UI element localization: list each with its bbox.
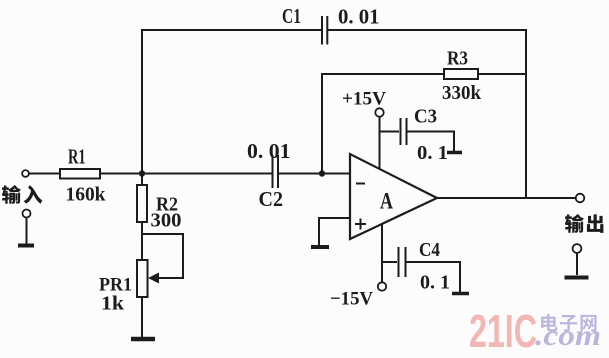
- svg-text:0. 1: 0. 1: [420, 272, 450, 294]
- wire vertical from top wire down to input node: [141, 30, 143, 173]
- wire +15V supply vertical: [379, 117, 381, 168]
- svg-text:160k: 160k: [66, 184, 107, 206]
- PR1 wiper arrowhead: [148, 273, 159, 284]
- op-amp non-inverting input plus sign: [355, 219, 366, 230]
- svg-text:−15V: −15V: [330, 289, 373, 310]
- wire R1 to node: [100, 173, 142, 175]
- node junction R1/R2/C1: [139, 170, 145, 176]
- watermark char wang: [580, 315, 596, 332]
- svg-text:C3: C3: [414, 106, 437, 128]
- wire input terminal ground: [26, 218, 28, 244]
- wire PR1 bottom to ground: [141, 297, 143, 337]
- node junction feedback/inverting input: [319, 170, 325, 176]
- wire R3 left segment: [322, 73, 444, 75]
- wire top C1 branch left segment: [142, 29, 321, 31]
- wire R2 bottom to PR1 top: [141, 222, 143, 260]
- potentiometer PR1 1k body: [137, 260, 148, 297]
- wire R2 node down: [141, 174, 143, 186]
- input ground terminal circle: [23, 210, 31, 218]
- svg-text:C2: C2: [259, 187, 284, 211]
- svg-text:300: 300: [151, 210, 182, 232]
- label shuchu output text char chu: [587, 214, 603, 233]
- svg-text:0. 1: 0. 1: [417, 142, 448, 164]
- wire C2 to op-amp inverting input: [280, 173, 350, 175]
- ground bar under PR1: [131, 337, 155, 342]
- svg-text:0. 01: 0. 01: [338, 5, 380, 29]
- wire top C1 branch right segment: [329, 29, 527, 31]
- wire non-inverting input to ground: [319, 218, 350, 245]
- wire C3 to ground stub: [408, 132, 454, 152]
- wire R3 right segment: [478, 73, 526, 75]
- ground bar C4: [452, 292, 469, 296]
- +15V terminal circle: [375, 108, 383, 116]
- output ground terminal circle: [573, 244, 582, 253]
- wire PR1 wiper loop: [142, 234, 183, 278]
- svg-text:R1: R1: [68, 145, 86, 169]
- label shuchu output text char shu: [565, 214, 584, 233]
- svg-text:330k: 330k: [442, 82, 482, 104]
- output terminal circle: [576, 194, 585, 203]
- wire -15V supply vertical: [381, 224, 383, 282]
- watermark char dian: [541, 314, 557, 332]
- svg-text:21IC: 21IC: [469, 305, 537, 357]
- wire output from op-amp to terminal: [437, 197, 576, 199]
- wire right vertical feedback to output: [525, 30, 527, 198]
- input terminal circle: [22, 170, 29, 177]
- svg-text:C4: C4: [419, 239, 440, 261]
- wire output terminal ground: [576, 254, 578, 275]
- capacitor C1 0.01 plates: [322, 17, 327, 44]
- wire -15V to C4: [382, 261, 396, 263]
- wire node to C2: [142, 173, 271, 175]
- -15V terminal circle: [378, 282, 386, 290]
- wire C4 to ground stub: [406, 262, 460, 292]
- label shuru input text char ru: [24, 185, 43, 203]
- op-amp inverting input minus sign: [356, 183, 365, 185]
- ground bar non-inverting input: [311, 245, 329, 249]
- ground bar under output terminal: [565, 276, 589, 280]
- watermark char zi: [560, 315, 577, 332]
- svg-text:+15V: +15V: [342, 89, 386, 110]
- capacitor C2 0.01 plates: [273, 156, 279, 187]
- svg-text:C1: C1: [282, 4, 301, 28]
- ground bar C3: [447, 151, 462, 155]
- capacitor C4 0.1 plates: [399, 248, 406, 276]
- svg-text:0. 01: 0. 01: [247, 139, 291, 163]
- svg-text:A: A: [380, 189, 393, 214]
- label shuru input text char shu: [2, 185, 21, 204]
- wire +15V to C3: [380, 131, 399, 133]
- ground bar under input terminal: [18, 244, 34, 248]
- resistor R1 160k body: [60, 169, 100, 179]
- capacitor C3 0.1 plates: [401, 119, 407, 144]
- svg-text:1k: 1k: [101, 293, 125, 315]
- resistor R2 300 body: [137, 185, 147, 222]
- wire feedback vertical from R3 down to inverting node: [321, 74, 323, 173]
- wire input from terminal to R1: [29, 173, 60, 175]
- resistor R3 330k body: [444, 69, 478, 79]
- op-amp A triangle: [350, 154, 437, 239]
- svg-text:R3: R3: [447, 48, 468, 70]
